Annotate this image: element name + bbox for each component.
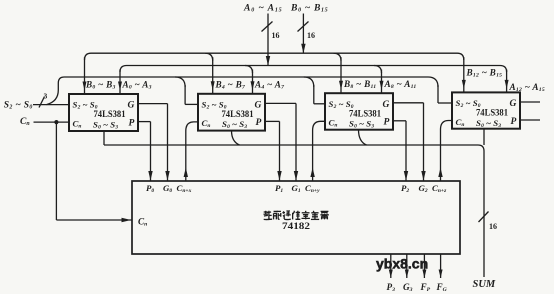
svg-text:ybx8.cn: ybx8.cn [376, 256, 428, 272]
svg-text:S0 ~ S3: S0 ~ S3 [349, 119, 374, 130]
svg-text:A4 ~ A7: A4 ~ A7 [254, 80, 285, 91]
svg-text:16: 16 [272, 31, 280, 40]
svg-text:G: G [383, 100, 390, 110]
svg-text:B4 ~ B7: B4 ~ B7 [215, 80, 246, 91]
svg-text:P: P [511, 117, 517, 127]
svg-text:S0 ~ S3: S0 ~ S3 [476, 118, 501, 129]
svg-text:3: 3 [44, 92, 48, 101]
svg-text:G: G [255, 100, 262, 110]
svg-text:16: 16 [489, 222, 497, 231]
svg-text:74182: 74182 [282, 221, 310, 232]
svg-text:S2 ~ S0: S2 ~ S0 [4, 100, 33, 110]
svg-text:G: G [128, 101, 135, 111]
svg-text:S0 ~ S3: S0 ~ S3 [222, 119, 247, 130]
svg-text:B0 ~ B3: B0 ~ B3 [85, 80, 116, 91]
svg-text:P: P [129, 118, 135, 128]
svg-text:16: 16 [307, 31, 315, 40]
svg-text:G: G [510, 99, 517, 109]
svg-text:SUM: SUM [473, 279, 496, 290]
svg-text:P: P [384, 118, 390, 128]
svg-text:P: P [256, 118, 262, 128]
svg-text:A0 ~ A3: A0 ~ A3 [122, 80, 152, 91]
svg-text:S0 ~ S3: S0 ~ S3 [93, 119, 118, 130]
